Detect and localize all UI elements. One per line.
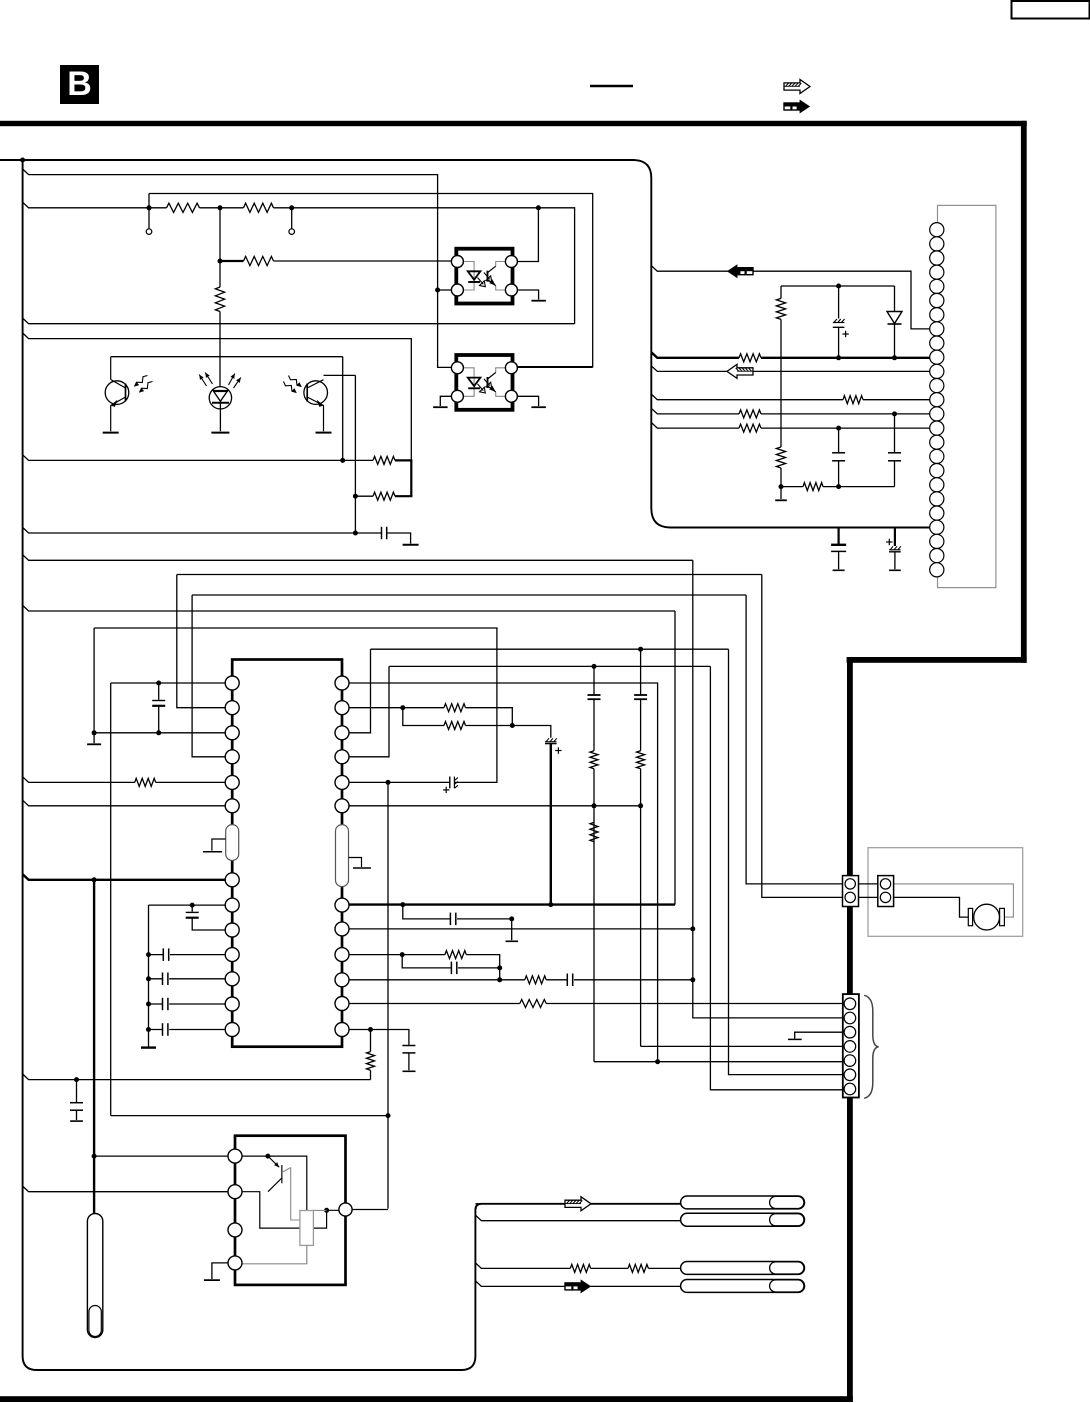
node pin6R v1	[592, 803, 597, 808]
resistor R6	[373, 492, 395, 500]
node rail594 top	[592, 664, 597, 669]
thick outer border step bar	[847, 657, 1027, 663]
capacitor C10	[162, 973, 164, 986]
node network cap top	[836, 284, 841, 289]
resistor R1	[167, 203, 200, 212]
node pin3 cap	[156, 730, 161, 735]
connector CN2 pins	[844, 998, 856, 1010]
node filter bottom	[836, 484, 841, 489]
wire network resistor drop	[780, 286, 782, 298]
wire test point stub 2	[291, 208, 293, 229]
ground opto2 anode-side	[433, 406, 448, 408]
wire U2 pin1 row	[94, 1155, 235, 1157]
node C15 right	[509, 916, 514, 921]
wire U1 pin6R out	[342, 805, 641, 807]
wire row C	[192, 594, 746, 596]
wire opto2 anode ground	[440, 396, 457, 406]
resistor R25	[570, 1264, 590, 1272]
X1 stub	[212, 839, 226, 851]
wire bus branch row D	[23, 605, 675, 611]
motor M1	[968, 908, 972, 925]
wire opto1 emitter to ground	[512, 290, 539, 300]
node lower row cap	[74, 1077, 79, 1082]
wire U2 right pin to riser	[346, 1209, 389, 1211]
wire filter bottom right	[823, 486, 895, 488]
cable lug P1	[681, 1196, 805, 1209]
wire test point stub 1	[148, 194, 150, 229]
wire feedback out to CN1 pin8	[651, 266, 929, 329]
node R1/R2 mid	[218, 205, 223, 210]
signal arrow (block, left)	[746, 268, 753, 275]
wire rail594 to CN2 pin5	[594, 1061, 843, 1063]
wire U2 pin4 ground	[212, 1263, 235, 1279]
wire cable row4	[475, 1281, 680, 1287]
resistor R20	[367, 1052, 375, 1071]
wire U1 pin12 row	[149, 1003, 233, 1005]
wire bus branch lower return	[23, 318, 575, 324]
capacitor C6 (electrolytic) on shelf	[894, 528, 896, 547]
wire motor wire2	[886, 897, 969, 917]
wire U1 pin3R riser	[342, 649, 371, 733]
motor unit frame	[868, 848, 1023, 937]
capacitor C21	[634, 694, 647, 696]
wire U1 pin8R out	[342, 928, 693, 930]
wire zener network top	[781, 285, 895, 287]
node pin11	[146, 976, 151, 981]
wire R6 to Q2 collector	[355, 495, 373, 497]
resistor R15	[444, 704, 466, 712]
wire bus branch feedback row	[23, 455, 373, 461]
LED D1 emission arrows	[199, 375, 206, 387]
opto-coupler PC1	[456, 249, 512, 304]
wire CN2 pin3 ground stub	[795, 1032, 843, 1038]
connector CN1 pins	[930, 223, 944, 237]
wire row to CN1 pin15	[651, 423, 929, 429]
node Q2 collector R6	[353, 494, 358, 499]
wire pin1 net bottom row	[111, 1115, 388, 1117]
capacitor C8	[191, 905, 193, 912]
legend arrow (block)	[784, 103, 791, 110]
ground pin3 net	[93, 733, 95, 743]
LED D1	[209, 387, 231, 409]
resistor R7	[776, 298, 785, 319]
transistor Q3 emitter	[268, 1178, 282, 1192]
board outline left bus / bottom edge / cable bus	[23, 160, 681, 1370]
U2 pins	[228, 1149, 242, 1163]
wire R8 to ground node	[780, 468, 782, 499]
wire U1 pin2 feed	[177, 575, 232, 708]
wire U2 out to right pin	[327, 1209, 346, 1211]
wire Q2 collector vertical	[354, 375, 356, 533]
node opto1 top-right branch	[536, 205, 541, 210]
wire U1 pin11 row	[149, 978, 233, 980]
rail x640	[640, 649, 642, 1046]
wire U1 pin1R out	[342, 683, 658, 1062]
capacitor C9	[162, 948, 164, 961]
capacitor C20	[588, 694, 601, 696]
wire motor wire1 (gray)	[886, 884, 1014, 917]
resistor R11	[739, 410, 761, 418]
wire bus branch pin6 row	[23, 800, 233, 806]
node pin3 left	[92, 730, 97, 735]
capacitor C11	[162, 998, 164, 1010]
wire U1 pin3 row	[94, 628, 232, 733]
capacitor C12	[162, 1023, 164, 1036]
ground C1	[403, 544, 419, 546]
test point TP2	[289, 229, 295, 235]
rail x594	[593, 666, 595, 1061]
wire bus branch pin5 row	[23, 777, 135, 783]
wire pin8 bypass vertical	[148, 905, 150, 1041]
IC U2 body	[235, 1136, 346, 1285]
node pin12R branch	[368, 1027, 373, 1032]
X2 stub	[349, 858, 362, 868]
node rail657 join	[655, 1059, 660, 1064]
transistor Q3 collector	[282, 1168, 300, 1221]
node supply cap	[836, 355, 841, 360]
wire U1 pin7R out (bold)	[342, 903, 675, 905]
connector CN4 pins	[880, 879, 890, 889]
wire R4 to LED	[219, 312, 221, 388]
wire Q1 collector rail	[111, 356, 343, 358]
capacitor C5 on shelf	[837, 528, 839, 545]
wire U1 pin4R riser	[342, 666, 389, 756]
wire U1 pin4 feed	[192, 595, 232, 757]
node U2 right node	[324, 1208, 329, 1213]
node pin5R branch	[386, 780, 391, 785]
wire R20 drop	[370, 1030, 372, 1052]
wire row to CN1 pin14	[651, 408, 929, 414]
ground bypass rail	[141, 1046, 156, 1048]
node R15/R16 join	[510, 723, 515, 728]
wire U1 pin8 row	[149, 904, 233, 906]
connector CN4 body	[878, 876, 894, 907]
cable lug P3	[681, 1262, 805, 1275]
rail x746 to motor connector	[746, 595, 842, 884]
connector CN3 pins	[845, 879, 855, 889]
wire test point row to opto2 loop	[149, 194, 593, 367]
resistor R3	[244, 256, 274, 265]
wire U1 pin10 row	[149, 954, 233, 956]
rail x761 to motor connector	[762, 575, 843, 898]
wire R14 to pin5	[156, 781, 233, 783]
node pin1 net to sub IC	[386, 1113, 391, 1118]
connector CN3 body	[843, 876, 859, 907]
wire U1 pin2R out	[342, 708, 512, 726]
capacitor C18	[402, 1045, 415, 1047]
wire row B	[177, 574, 762, 576]
node board outline top-left	[20, 158, 25, 163]
transistor Q2 (photo)	[304, 381, 328, 405]
wire R3 to opto1 anode	[274, 260, 458, 262]
capacitor C2 (electrolytic)	[838, 286, 840, 319]
wire U1 pin11R out	[342, 1003, 843, 1005]
wire U1 pin1 feed	[111, 682, 233, 684]
thick outer border bottom bar	[0, 1396, 853, 1402]
node pin1 cap branch	[156, 681, 161, 686]
wire pin1 net vertical	[110, 683, 112, 1116]
diode D2	[894, 286, 896, 312]
resistor R4	[215, 287, 224, 312]
light arrows into Q2	[289, 376, 302, 387]
node U2 base node	[265, 1154, 270, 1159]
node C16 right	[497, 965, 502, 970]
resistor R2	[244, 203, 274, 212]
wire bus branch U2 pin2 row	[23, 1186, 235, 1192]
node R1 left	[147, 205, 152, 210]
node cap row Q2	[353, 531, 358, 536]
node pin8R corner	[690, 926, 695, 931]
wire supply row (bold)	[651, 352, 739, 358]
node supply diode	[892, 355, 897, 360]
thick outer border left-lower vertical (lower part)	[847, 1097, 853, 1402]
resistor R16	[444, 722, 466, 730]
node R2 right stub	[289, 205, 294, 210]
rail x692	[693, 560, 843, 1018]
node R3 branch	[218, 259, 223, 264]
node pin8 cap branch	[190, 903, 195, 908]
wire CN3-CN4 link2	[850, 896, 885, 898]
wire opto1 lower-left pin to vertical	[438, 289, 458, 291]
resistor R14	[135, 778, 156, 786]
wire opto2 collector out	[512, 366, 593, 368]
wire rail640 to CN2 pin4	[641, 1045, 843, 1047]
node pin13	[146, 1027, 151, 1032]
capacitor C16	[402, 955, 500, 968]
R24 stub right	[313, 1209, 326, 1211]
wire row G	[389, 665, 710, 667]
capacitor C17	[566, 974, 568, 987]
wire CN3-CN4 link1	[850, 883, 885, 885]
resistor R22	[590, 822, 598, 841]
node bold branch	[92, 877, 97, 882]
node rail640 top	[638, 647, 643, 652]
light arrows into Q1	[135, 376, 148, 387]
sensor S1 (cylinder)	[87, 1214, 102, 1338]
wire supply row bold right	[761, 357, 930, 359]
node R8 bottom	[779, 484, 784, 489]
node opto1 cathode junction	[435, 288, 440, 293]
thick outer border left-lower vertical (upper part)	[847, 657, 853, 994]
brace CN2	[864, 995, 878, 1098]
wire row to CN1 pin13	[651, 394, 929, 400]
node pin15 branch	[836, 426, 841, 431]
wire C15 stub	[511, 919, 513, 940]
wire pin5R net drop	[387, 782, 389, 1208]
wire bus branch pin7 row (bold)	[23, 874, 233, 880]
IC U1 right pins	[335, 676, 349, 690]
IC U1 body	[232, 660, 342, 1047]
rail x728 to CN2 pin6	[729, 649, 843, 1074]
resistor R23	[637, 751, 645, 769]
transistor Q1 (photo)	[105, 381, 129, 405]
node pin2R branch	[400, 705, 405, 710]
wire bold drop to sensor	[93, 880, 95, 1214]
wire pin9R to pin10R net	[499, 968, 501, 980]
wire pin7R branch	[403, 905, 512, 919]
wire U1 pin12R out	[342, 1030, 409, 1045]
node pin14 branch	[892, 411, 897, 416]
board outline top edge with rounded corner to right edge and bottom shelf	[0, 160, 930, 528]
capacitor C13 (electrolytic)	[546, 738, 549, 742]
ground opto2 emitter	[531, 406, 546, 408]
wire U2 pin2 internal	[235, 1192, 327, 1228]
wire R3 bold lead	[220, 260, 244, 262]
IC U1 left pins	[225, 676, 239, 690]
connector CN1 body	[938, 205, 996, 587]
node pin9R	[400, 952, 405, 957]
wire U1 pin9R out	[342, 954, 402, 956]
capacitor C1	[381, 527, 383, 539]
ground U2 pin4	[204, 1279, 220, 1281]
node collector rail to feedback row	[340, 458, 345, 463]
resonator X1 left	[226, 825, 239, 861]
wire R5 bold link	[395, 460, 411, 496]
ground D1 cathode	[211, 432, 229, 434]
wire filter bottom row	[781, 486, 803, 488]
cable arrow (block)	[565, 1283, 572, 1290]
wire collector rail drop	[342, 357, 344, 461]
legend arrow (hatched)	[784, 80, 810, 94]
capacitor C15	[449, 913, 451, 926]
wire opto2 emitter ground	[512, 396, 539, 406]
node pin10	[146, 952, 151, 957]
wire cable row2	[475, 1215, 680, 1221]
wire U1 pin5R out	[342, 628, 497, 782]
resistor R10	[843, 396, 863, 404]
ground divider	[775, 499, 787, 501]
resonator X2 right	[336, 825, 349, 887]
resistor R8	[776, 447, 785, 468]
test point TP1	[146, 229, 152, 235]
wire bus branch to opto couplers	[23, 169, 458, 367]
node pin12	[146, 1002, 151, 1007]
resistor R9	[739, 354, 761, 362]
resistor R24 (box)	[300, 1211, 314, 1246]
resistor R12	[739, 424, 761, 432]
node pin6R v2	[638, 803, 643, 808]
signal arrow (hatched, left)	[727, 364, 753, 378]
wire bus branch LED anode row	[23, 333, 412, 460]
cable lug P2	[681, 1213, 805, 1226]
cable arrow (hatched)	[565, 1197, 591, 1211]
thick outer border top bar	[0, 121, 1027, 126]
resistor R13	[803, 483, 823, 491]
wire R7 lower lead	[780, 319, 782, 447]
wire row F	[371, 648, 729, 650]
wire bus branch resistor row	[23, 202, 575, 324]
wire cable row3	[475, 1263, 680, 1269]
opto-coupler PC2	[456, 355, 512, 410]
connector CN2 body	[843, 994, 859, 1097]
capacitor C3	[838, 428, 840, 452]
rail x710 to CN2 pin7	[710, 666, 842, 1089]
wire opto1 collector out	[512, 208, 539, 262]
node U2 pin1 src	[92, 1154, 97, 1159]
capacitor C7	[158, 683, 160, 700]
rail x674 supply drop	[674, 611, 676, 905]
resistor R18	[525, 976, 546, 984]
label B box	[60, 65, 99, 104]
resistor R26	[628, 1264, 648, 1272]
node pin7R b	[548, 902, 553, 907]
thick outer border right segment	[1021, 121, 1027, 663]
ground Q2 emitter	[316, 432, 332, 434]
cable lug P4	[681, 1280, 805, 1293]
wire R24 bottom to pin4	[235, 1245, 307, 1263]
node pin10R right	[690, 977, 695, 982]
wire pin2R lower row	[403, 708, 551, 738]
wire row to CN1 pin11	[651, 366, 929, 372]
resistor R5	[373, 456, 395, 464]
capacitor C4	[894, 414, 896, 452]
wire bus branch lower row	[23, 1070, 371, 1079]
ground opto1 emitter	[531, 300, 546, 302]
wire divider vertical	[219, 208, 221, 287]
page reference box top-right	[1012, 1, 1090, 19]
legend line	[590, 85, 633, 88]
U2 internal bias net	[235, 1156, 307, 1210]
transistor Q3 base arrow	[268, 1156, 279, 1167]
capacitor C14 (electrolytic)	[443, 789, 449, 791]
node pin7R a	[400, 902, 405, 907]
wire cable row1	[475, 1203, 680, 1205]
node pin10R	[497, 977, 502, 982]
wire bus branch row A	[23, 555, 693, 561]
svg-text:B: B	[67, 65, 92, 103]
transistor Q3 bars	[281, 1165, 283, 1183]
wire bus branch cap row	[23, 527, 411, 543]
wire U1 pin13 row	[149, 1029, 233, 1031]
ground Q1 emitter	[103, 432, 119, 434]
resistor R19	[520, 1000, 546, 1008]
resistor R21	[590, 751, 598, 769]
capacitor C19	[76, 1080, 78, 1102]
wire row E	[94, 627, 498, 629]
resistor R17	[445, 951, 466, 959]
wire U1 pin10R out	[342, 979, 693, 981]
